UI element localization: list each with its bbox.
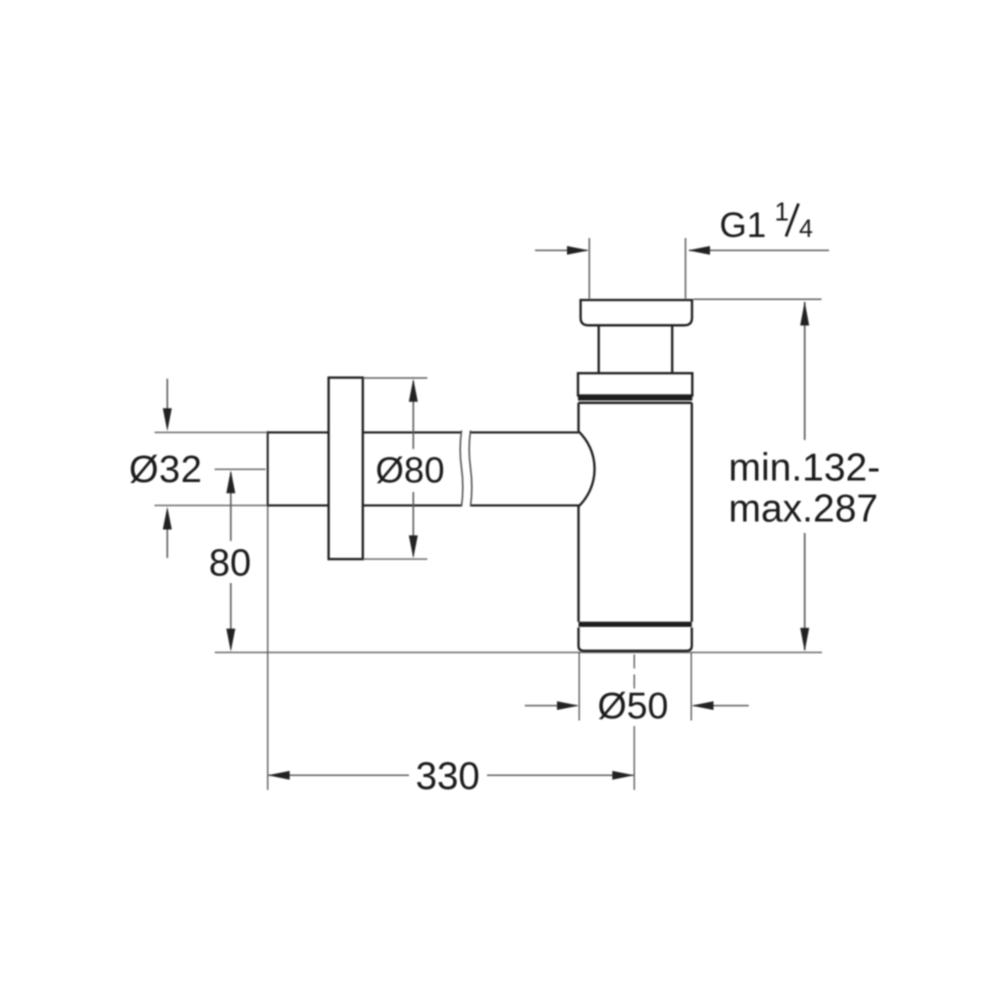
svg-text:Ø50: Ø50 (598, 685, 669, 727)
inlet pipe bottom edge (268, 504, 579, 506)
inlet pipe rounded end bulb inside body (579, 431, 595, 506)
Ø50 left extension line (578, 653, 580, 721)
pipe centerline leader (215, 468, 266, 470)
center dashed line below cap (633, 655, 635, 691)
pipe break symbol left squiggle (460, 431, 463, 507)
dimension Ø32 lower arrow shaft (166, 526, 168, 558)
dimension Ø80 upper shaft (412, 381, 414, 449)
dimension Ø80 top extension line (363, 377, 427, 379)
body top edge (579, 402, 692, 404)
Ø50 right extension line (690, 653, 692, 721)
inlet pipe top edge (268, 431, 579, 433)
body right wall (691, 403, 693, 622)
Ø50 dim line right segment (694, 705, 749, 707)
dimension 80 upper arrow (pointing up) (226, 470, 235, 493)
dimension Ø32 bottom extension line (155, 504, 268, 506)
dimension Ø32 lower arrow (pointing up) (163, 507, 172, 530)
vertical dimension line min.132-max.287 lower shaft (804, 533, 806, 650)
svg-text:Ø80: Ø80 (376, 450, 445, 491)
dimension Ø32 upper arrow (pointing down) (163, 408, 172, 431)
svg-text:80: 80 (209, 543, 251, 585)
dimension Ø80 arrow top (pointing up) (409, 379, 418, 402)
body left wall lower segment (577, 507, 579, 622)
neck between nut and body flange, right line (671, 325, 673, 373)
vertical dimension arrow top (pointing up) (800, 302, 809, 326)
dimension G1 1/4 dim line right segment (689, 249, 829, 251)
nut (G1 1/4 union nut) (581, 300, 692, 325)
inlet pipe open left end (267, 431, 269, 506)
svg-text:min.132-: min.132- (729, 447, 881, 490)
top extension line to right vertical dimension (694, 298, 822, 300)
svg-text:1: 1 (775, 197, 789, 227)
pipe break symbol right squiggle (469, 431, 472, 507)
dimension 80 upper shaft (230, 473, 232, 542)
330 arrow right (pointing right) (612, 771, 634, 780)
330 dim line left segment (269, 774, 409, 776)
svg-text:max.287: max.287 (729, 487, 879, 530)
dimension Ø32 top extension line (155, 431, 268, 433)
dimension G1 1/4 dim line left segment (535, 249, 587, 251)
330 left extension line (pipe end) (267, 506, 269, 790)
dark seam band above bottom cap (579, 622, 692, 627)
body left wall upper segment (577, 403, 579, 432)
neck between nut and body flange, left line (598, 325, 600, 373)
vertical dimension line min.132-max.287 upper shaft (804, 302, 806, 440)
extension line left of G1 dimension (588, 238, 590, 299)
330 dim line right segment (487, 774, 633, 776)
dimension Ø80 arrow bottom (pointing down) (409, 535, 418, 558)
svg-text:Ø32: Ø32 (129, 449, 202, 491)
svg-text:G1: G1 (720, 206, 767, 245)
svg-text:4: 4 (799, 215, 813, 243)
Ø50 arrow right (pointing left) (692, 701, 714, 710)
extension line right of G1 dimension (685, 238, 687, 299)
body top flange (578, 373, 692, 395)
wall escutcheon flange on pipe (329, 378, 363, 559)
dimension Ø32 upper arrow shaft (166, 379, 168, 412)
Ø50 dim line left segment (525, 705, 577, 707)
dimension 80 lower shaft (230, 583, 232, 649)
dimension 80 lower arrow (pointing down) (226, 629, 235, 652)
vertical dimension arrow bottom (pointing down) (800, 628, 809, 651)
dimension G1 1/4 arrow right (pointing left) (688, 246, 710, 255)
dimension Ø80 lower shaft (412, 492, 414, 556)
bottom cap of trap body (579, 628, 692, 651)
bottom baseline extension (215, 651, 822, 653)
330 arrow left (pointing left) (268, 771, 290, 780)
Ø50 arrow left (pointing right) (557, 701, 579, 710)
dimension Ø80 bottom extension line (363, 558, 427, 560)
svg-text:330: 330 (416, 755, 480, 798)
dimension G1 1/4 arrow left (pointing right) (567, 246, 589, 255)
center extension line to 330 dimension (633, 726, 635, 790)
dark seam band under top flange (578, 396, 692, 401)
